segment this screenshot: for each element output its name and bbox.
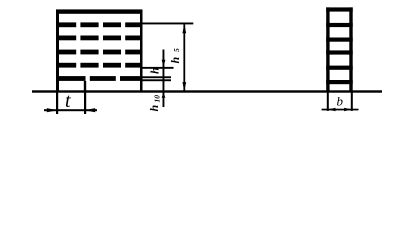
tower rung 1 (top) <box>326 7 353 11</box>
svg-text:h: h <box>147 105 161 112</box>
svg-text:t: t <box>65 90 71 112</box>
dimension h5: up arrow <box>182 24 186 33</box>
dimension b: right extension line below ground <box>351 93 353 111</box>
dimension h/h10: vertical dimension line <box>163 50 165 108</box>
dimension h10: up arrow below ground <box>162 93 166 98</box>
dimension h5: top extension line <box>143 23 194 25</box>
tower rung 6 <box>326 80 353 84</box>
svg-text:b: b <box>337 94 344 109</box>
building dashed row 4 <box>56 50 143 55</box>
dimension t: left extension line below ground <box>56 93 58 115</box>
dimension h5: down arrow <box>182 82 186 91</box>
building left edge <box>56 10 59 91</box>
svg-text:5: 5 <box>172 48 181 52</box>
dimension h: extension line row6 top <box>143 76 172 78</box>
dimension b: left extension line below ground <box>327 93 329 111</box>
dimension t: dimension line <box>44 109 97 111</box>
tower right rail <box>349 7 352 90</box>
dimension t: right extension line below ground <box>84 93 86 115</box>
tower left rail <box>326 7 329 90</box>
tower rung 3 <box>326 38 353 42</box>
tower rung 4 <box>326 50 353 54</box>
building dashed row 2 <box>56 22 143 27</box>
dimension b: left arrow (tip at left extension) <box>328 108 336 112</box>
building right edge <box>140 10 143 91</box>
building bottom row 6 <box>56 76 143 81</box>
dimension h5: vertical dimension line <box>183 24 185 90</box>
dimension h: down arrow onto upper extension <box>162 60 166 67</box>
tower rung 2 <box>326 23 353 27</box>
dimension t: right-pointing arrow <box>47 108 58 112</box>
dimension t: left-pointing arrow <box>85 108 96 112</box>
ground line <box>32 90 382 92</box>
svg-text:10: 10 <box>153 95 162 103</box>
dimension h: extension line upper <box>143 67 174 69</box>
tower rung 5 <box>326 66 353 70</box>
svg-text:h: h <box>148 67 162 74</box>
svg-text:h: h <box>168 57 182 64</box>
dimension h: extension line row6 bottom <box>143 79 172 81</box>
building top bar <box>56 9 143 13</box>
dimension b: right arrow (tip at right extension) <box>344 108 352 112</box>
building leg right vertical <box>84 81 86 91</box>
building dashed row 3 <box>56 36 143 41</box>
dimension b: dimension line <box>322 109 359 111</box>
building dashed row 5 <box>56 63 143 68</box>
